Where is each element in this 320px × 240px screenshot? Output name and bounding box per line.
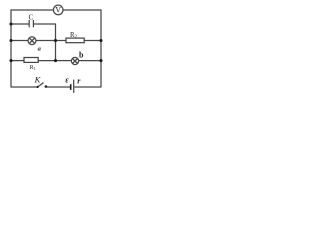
svg-text:r: r [77, 76, 81, 85]
wire R2 to right rail [84, 40, 101, 42]
wire R1 branch left rail to R1 [11, 60, 25, 62]
node right rail lamp b branch [99, 59, 102, 62]
svg-text:R2: R2 [70, 32, 78, 40]
node right rail main branch [99, 39, 102, 42]
wire lamp b to right rail [79, 60, 101, 62]
wire R1 to middle rail [38, 60, 55, 62]
wire top horizontal right of voltmeter [63, 9, 102, 11]
wire main branch left rail to lamp a [11, 40, 29, 42]
svg-text:b: b [79, 51, 84, 60]
node left rail R1 branch [9, 59, 12, 62]
node left rail capacitor branch [9, 22, 12, 25]
resistor R1: box [24, 58, 38, 63]
lamp b: circle with cross [71, 57, 78, 64]
svg-text:K: K [34, 75, 42, 85]
wire bottom left rail to switch [11, 86, 38, 88]
battery: positive long plate [73, 80, 75, 93]
wire capacitor branch right [34, 23, 56, 25]
resistor R2: box [66, 38, 84, 43]
switch K: right contact dot [45, 85, 48, 88]
capacitor C: left plate [28, 20, 30, 27]
svg-text:C: C [29, 14, 34, 22]
wire switch to battery [47, 86, 70, 88]
wire lamp a to middle rail [36, 40, 56, 42]
switch K: left contact dot [37, 86, 39, 88]
svg-text:V: V [55, 6, 61, 15]
node middle rail lamp b branch [54, 59, 57, 62]
wire right rail [100, 10, 102, 88]
wire middle rail to lamp b [56, 60, 72, 62]
wire middle rail [55, 24, 57, 61]
node left rail main branch [9, 39, 12, 42]
lamp a: circle with cross [28, 37, 36, 45]
capacitor C: right plate [32, 20, 34, 27]
wire left rail [10, 10, 12, 88]
wire top horizontal left of voltmeter [11, 9, 54, 11]
node middle rail main branch [54, 39, 57, 42]
svg-text:a: a [38, 45, 42, 52]
svg-text:ε: ε [65, 75, 69, 85]
voltmeter U: circle [53, 5, 63, 15]
wire capacitor branch left [11, 23, 30, 25]
wire battery to right rail [74, 86, 101, 88]
battery: negative short plate [70, 84, 72, 90]
switch K: blade [38, 83, 44, 87]
wire middle rail to resistor R2 [56, 40, 67, 42]
svg-text:R1: R1 [30, 65, 36, 71]
